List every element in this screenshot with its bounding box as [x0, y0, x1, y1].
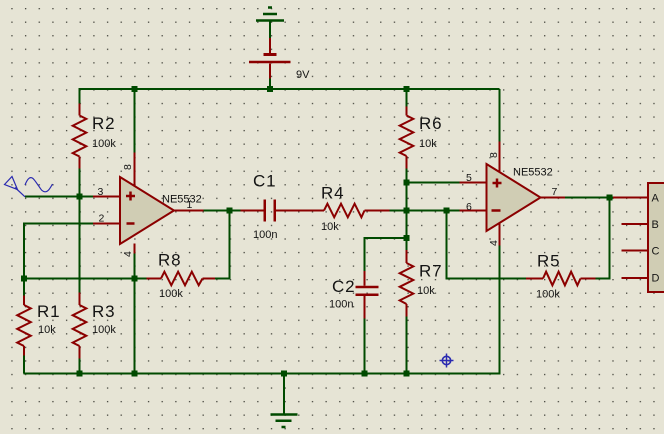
resistor R8 — [147, 272, 216, 286]
pin 2 stub op1 — [93, 223, 120, 225]
wire R8 row left — [24, 278, 147, 280]
label R4 — [321, 184, 344, 203]
pin label C — [652, 246, 660, 258]
ground bottom — [271, 415, 298, 428]
label R6 — [419, 114, 442, 133]
wire output node vertical — [609, 198, 611, 279]
ground top — [256, 8, 284, 21]
pin 8 stub op1 — [134, 153, 136, 187]
svg-text:R5: R5 — [537, 252, 560, 271]
pin 4 stub op2 — [499, 223, 501, 246]
pin number 4 op1 — [122, 251, 134, 257]
wire input source to node — [25, 196, 80, 198]
pin number 2 — [99, 213, 105, 225]
svg-text:6: 6 — [466, 201, 472, 213]
junction top rail battery — [267, 86, 273, 92]
label R5 — [537, 252, 560, 271]
value 100n — [253, 229, 277, 241]
pin number 4 op2 — [488, 240, 500, 246]
value 10k — [38, 324, 56, 336]
wire R3 bottom to ground rail — [79, 359, 81, 375]
value 100k — [159, 288, 183, 300]
wire pin4 op1 to ground rail — [134, 253, 136, 374]
label NE5532 op1 — [162, 194, 202, 206]
pin 3 stub op1 — [93, 196, 120, 198]
value 10k — [417, 285, 435, 297]
svg-text:100n: 100n — [329, 299, 353, 311]
junction R4 node — [404, 208, 410, 214]
wire feedback right link — [596, 278, 611, 280]
svg-text:100k: 100k — [536, 289, 560, 301]
svg-text:7: 7 — [552, 186, 558, 198]
svg-text:R3: R3 — [92, 302, 115, 321]
svg-text:4: 4 — [488, 240, 500, 246]
wire pin5 horizontal — [407, 182, 460, 184]
junction rail pin4 op1 — [132, 371, 138, 377]
wire pin8 op2 supply drop — [499, 89, 501, 142]
junction op1 output node — [227, 208, 233, 214]
svg-text:10k: 10k — [417, 285, 435, 297]
pin number 7 — [552, 186, 558, 198]
svg-text:D: D — [652, 273, 660, 285]
svg-text:1: 1 — [187, 199, 193, 211]
junction top rail op1 supply — [132, 86, 138, 92]
junction rail C2 — [362, 371, 368, 377]
pin number 3 — [98, 186, 104, 198]
pin label A — [652, 193, 660, 205]
wire pin4 op2 to ground rail — [499, 245, 501, 375]
wire R2 top lead link — [79, 88, 81, 104]
wire top ground to battery — [269, 21, 271, 39]
wire pin2 horizontal — [24, 223, 93, 225]
wire battery to rail — [269, 79, 271, 90]
svg-text:A: A — [652, 193, 660, 205]
resistor R2 — [73, 104, 87, 169]
svg-text:2: 2 — [99, 213, 105, 225]
svg-text:8: 8 — [488, 152, 500, 158]
value 100k — [92, 324, 116, 336]
wire R8 feedback vertical — [229, 211, 231, 280]
pin number 8 op1 — [122, 164, 134, 170]
capacitor C1 — [241, 200, 291, 222]
svg-text:R8: R8 — [158, 251, 181, 270]
svg-text:R6: R6 — [419, 114, 442, 133]
label R7 — [419, 262, 442, 281]
pin 6 stub op2 — [460, 210, 487, 212]
wire node to R1 top — [23, 279, 25, 296]
wire feedback horizontal — [446, 278, 527, 280]
pin number 8 op2 — [488, 152, 500, 158]
svg-text:C: C — [652, 246, 660, 258]
wire R8 right link — [215, 278, 231, 280]
resistor R7 — [400, 250, 414, 317]
op-amp U1 NE5532 — [120, 177, 174, 244]
capacitor C2 — [356, 271, 379, 319]
resistor R5 — [526, 272, 596, 286]
label R1 — [37, 302, 60, 321]
label R2 — [92, 114, 115, 133]
input signal source — [5, 177, 53, 197]
wire R6 bottom to R7 top — [406, 169, 408, 251]
origin marker — [440, 354, 454, 368]
op-amp U2 NE5532 — [487, 164, 541, 231]
wire input node to pin3 stub — [80, 196, 94, 198]
svg-text:4: 4 — [122, 251, 134, 257]
svg-text:10k: 10k — [38, 324, 56, 336]
wire feedback to pin6 vertical — [446, 211, 448, 280]
wire op1 output to C1 — [203, 210, 241, 212]
wire bottom ground rail — [24, 373, 500, 375]
svg-text:C2: C2 — [332, 277, 355, 296]
connector J1 output header — [613, 183, 664, 292]
wire pin2 vertical down — [23, 223, 25, 280]
wire pin8 op1 supply drop — [134, 89, 136, 153]
svg-text:3: 3 — [98, 186, 104, 198]
svg-text:100k: 100k — [159, 288, 183, 300]
pin number 1 — [187, 199, 193, 211]
svg-text:10k: 10k — [321, 221, 339, 233]
svg-text:NE5532: NE5532 — [162, 194, 202, 206]
svg-text:NE5532: NE5532 — [513, 167, 553, 179]
pin 1 output stub op1 — [174, 210, 204, 212]
wire R2 bottom to input node to R3 top — [79, 169, 81, 293]
svg-text:C1: C1 — [253, 172, 276, 191]
value 9V — [296, 69, 310, 81]
pin number 5 — [466, 172, 472, 184]
value 10k — [419, 138, 437, 150]
resistor R1 — [17, 296, 31, 356]
junction top rail R6 — [404, 86, 410, 92]
pin number 6 — [466, 201, 472, 213]
svg-text:100n: 100n — [253, 229, 277, 241]
junction rail R3 — [77, 371, 83, 377]
wire R1 bottom corner — [23, 356, 25, 374]
svg-text:5: 5 — [466, 172, 472, 184]
junction rail ground — [281, 371, 287, 377]
wire R4 right to pin6 stub — [390, 210, 460, 212]
svg-text:R2: R2 — [92, 114, 115, 133]
svg-text:8: 8 — [122, 164, 134, 170]
value 100k — [92, 138, 116, 150]
junction pin6 node — [444, 208, 450, 214]
junction rail R7 — [404, 371, 410, 377]
junction output node A — [607, 195, 613, 201]
svg-text:R1: R1 — [37, 302, 60, 321]
svg-text:R4: R4 — [321, 184, 344, 203]
junction C2 R7 node — [404, 235, 410, 241]
label NE5532 op2 — [513, 167, 553, 179]
junction pin2 R1 R8 node — [21, 276, 27, 282]
wire op2 output — [565, 197, 616, 199]
battery BT1 9V — [249, 38, 291, 79]
wire R7 bottom to rail — [406, 317, 408, 375]
pin 7 output stub op2 — [541, 197, 566, 199]
svg-text:100k: 100k — [92, 324, 116, 336]
wire C2 top vertical — [364, 237, 366, 271]
label R3 — [92, 302, 115, 321]
resistor R3 — [73, 293, 87, 359]
pin label D — [652, 273, 660, 285]
svg-text:R7: R7 — [419, 262, 442, 281]
wire C2 bottom to rail — [364, 319, 366, 375]
pin 5 stub op2 — [460, 182, 487, 184]
junction input node — [77, 194, 83, 200]
svg-text:B: B — [652, 219, 659, 231]
value 100n — [329, 299, 353, 311]
resistor R6 — [400, 107, 414, 169]
wire top power rail — [80, 88, 500, 90]
pin label B — [652, 219, 659, 231]
pin 8 stub op2 — [499, 142, 501, 173]
resistor R4 — [276, 204, 390, 218]
wire bottom ground stub — [283, 374, 285, 415]
label C2 — [332, 277, 355, 296]
pin 4 stub op1 — [134, 244, 136, 254]
label C1 — [253, 172, 276, 191]
junction R8 row pin4 crossing — [132, 276, 138, 282]
value 10k — [321, 221, 339, 233]
svg-text:100k: 100k — [92, 138, 116, 150]
wire C2 branch horizontal — [364, 237, 407, 239]
svg-text:9V: 9V — [296, 69, 310, 81]
label R8 — [158, 251, 181, 270]
wire rail to R6 top — [406, 89, 408, 107]
value 100k — [536, 289, 560, 301]
svg-text:10k: 10k — [419, 138, 437, 150]
junction pin5 node — [404, 180, 410, 186]
